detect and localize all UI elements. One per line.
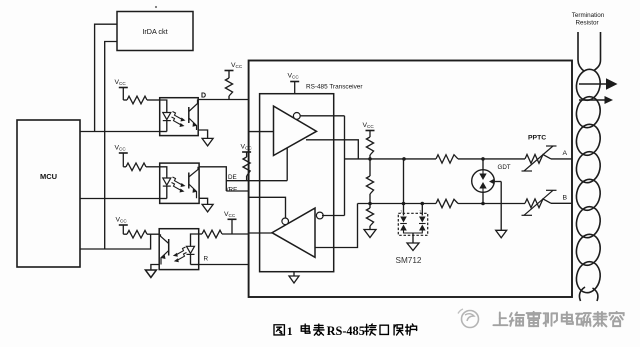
label RS-485 Transceiver xyxy=(306,83,363,90)
ground SM712 xyxy=(407,243,419,251)
ground bias network xyxy=(364,230,376,238)
wire MCU to optocoupler U2 xyxy=(80,131,160,133)
driver buffer U5A xyxy=(274,106,317,155)
optocoupler U4 channel R xyxy=(159,229,199,270)
VCC supply channel D xyxy=(115,79,128,100)
wire driver input D xyxy=(249,131,274,133)
svg-text:VCC: VCC xyxy=(115,79,127,86)
wire MCU TXD to IrDA xyxy=(95,24,117,131)
driver enable bubble xyxy=(293,113,300,120)
VCC pull-up label DE line xyxy=(241,144,253,153)
junction B GDT xyxy=(481,202,485,206)
junction B bias xyxy=(368,202,372,206)
enable bus wire xyxy=(344,116,346,216)
ground channel DE xyxy=(199,198,213,212)
twisted pair cable xyxy=(574,32,603,301)
wire /RE to receiver enable xyxy=(249,197,286,218)
MCU U1 xyxy=(17,120,80,267)
ground GDT xyxy=(496,182,507,238)
junction B SM712 pin1 xyxy=(402,202,406,206)
svg-text:1: 1 xyxy=(400,209,403,214)
wire MCU to optocoupler U3 xyxy=(80,198,160,200)
PPTC fuse F2 line B xyxy=(522,190,557,215)
watermark logo xyxy=(458,309,479,328)
VCC supply channel DE xyxy=(115,145,128,167)
svg-text:RS-485 Transceiver: RS-485 Transceiver xyxy=(306,83,363,90)
resistor R9 A-B xyxy=(366,159,373,204)
wire DE xyxy=(226,180,287,182)
wire /RE stub xyxy=(226,190,248,192)
svg-text:SM712: SM712 xyxy=(396,256,422,265)
svg-text:VCC: VCC xyxy=(288,73,300,80)
RS-485 transceiver U5 box xyxy=(260,94,334,272)
resistor R7 channel R line xyxy=(199,230,249,238)
wire receiver output R xyxy=(249,232,272,234)
svg-text:MCU: MCU xyxy=(40,172,57,181)
svg-text:Termination: Termination xyxy=(572,12,605,19)
VCC supply transceiver xyxy=(288,73,300,94)
wire R output to MCU xyxy=(80,234,151,249)
wire MCU RXD to IrDA xyxy=(105,42,117,250)
svg-text:D: D xyxy=(201,93,206,100)
svg-text:PPTC: PPTC xyxy=(528,135,546,142)
resistor R3 pull-up D xyxy=(225,71,232,100)
svg-text:B: B xyxy=(563,195,568,202)
receiver buffer U5B xyxy=(272,208,315,257)
svg-text:IrDA ckt: IrDA ckt xyxy=(142,27,167,36)
label B xyxy=(563,195,568,202)
ground transceiver xyxy=(289,272,299,283)
wire receiver input xyxy=(315,204,358,248)
resistor R2 channel D input xyxy=(123,96,159,104)
junction B SM712 pin2 xyxy=(421,202,425,206)
VCC pull-up label R line xyxy=(224,211,237,234)
label Termination Resistor xyxy=(572,12,605,27)
label GDT xyxy=(498,164,511,171)
wire U3 output to DE//RE xyxy=(199,167,226,191)
label A xyxy=(563,150,568,157)
svg-text:VCC: VCC xyxy=(224,211,236,218)
wire D to transceiver xyxy=(198,99,248,101)
wire driver enable xyxy=(300,115,344,117)
watermark text xyxy=(493,312,623,327)
VCC pull-up label D line xyxy=(225,62,243,71)
resistor R4 channel DE input xyxy=(123,163,159,171)
TVS diode array D1 SM712 xyxy=(398,159,427,243)
receiver enable bubble right xyxy=(316,212,323,219)
protection boundary box xyxy=(249,61,572,298)
arrow surge in 2 xyxy=(579,96,613,104)
svg-text:VCC: VCC xyxy=(115,145,127,152)
optocoupler U2 channel D xyxy=(160,98,199,136)
receiver enable bubble xyxy=(282,218,289,225)
wire DE vertical xyxy=(286,148,288,181)
svg-text:VCC: VCC xyxy=(363,122,375,129)
svg-text:R: R xyxy=(204,255,209,262)
svg-text:RS-485: RS-485 xyxy=(327,324,365,338)
scan speck xyxy=(155,6,157,8)
SM712 pin marks xyxy=(400,209,422,214)
PPTC fuse F1 line A xyxy=(522,146,557,171)
label R xyxy=(204,255,209,262)
IrDA circuit block xyxy=(117,12,193,51)
resistor R12 line B xyxy=(436,199,458,207)
arrow surge in 1 xyxy=(579,78,618,89)
junction A GDT xyxy=(481,157,485,161)
svg-text:VCC: VCC xyxy=(241,144,253,151)
label D xyxy=(201,93,206,100)
resistor R6 channel R left xyxy=(123,230,159,238)
wire receiver enable right xyxy=(322,215,345,217)
svg-text:VCC: VCC xyxy=(116,217,128,224)
VCC supply bias network xyxy=(363,122,375,137)
junction A bias xyxy=(368,157,372,161)
resistor R11 line A xyxy=(436,155,458,163)
wire line A xyxy=(345,158,573,160)
VCC supply channel R left xyxy=(116,217,128,235)
resistor R10 pull-down B xyxy=(366,204,373,230)
label /RE xyxy=(227,186,238,193)
gas discharge tube GDT xyxy=(472,159,495,204)
caption figure 1 xyxy=(274,324,417,338)
wire line B xyxy=(358,202,573,204)
svg-text:GDT: GDT xyxy=(498,164,511,171)
wire U4 cathode stub xyxy=(199,264,249,266)
ground channel D xyxy=(198,130,213,146)
label DE xyxy=(228,174,237,181)
junction A SM712 xyxy=(402,157,406,161)
label PPTC xyxy=(528,135,546,142)
svg-text:1: 1 xyxy=(287,324,293,338)
resistor R5 pull-up DE xyxy=(243,152,250,181)
svg-text:DE: DE xyxy=(228,174,237,181)
ground channel R xyxy=(145,265,159,278)
svg-text:VCC: VCC xyxy=(231,62,243,69)
label SM712 xyxy=(396,256,422,265)
svg-text:/RE: /RE xyxy=(227,186,238,193)
svg-text:Resistor: Resistor xyxy=(575,20,598,27)
wire driver output xyxy=(306,140,358,159)
GDT third electrode arrow xyxy=(489,179,501,185)
resistor R8 pull-up A xyxy=(366,137,373,159)
optocoupler U3 channel DE xyxy=(160,163,199,203)
svg-text:A: A xyxy=(563,150,568,157)
